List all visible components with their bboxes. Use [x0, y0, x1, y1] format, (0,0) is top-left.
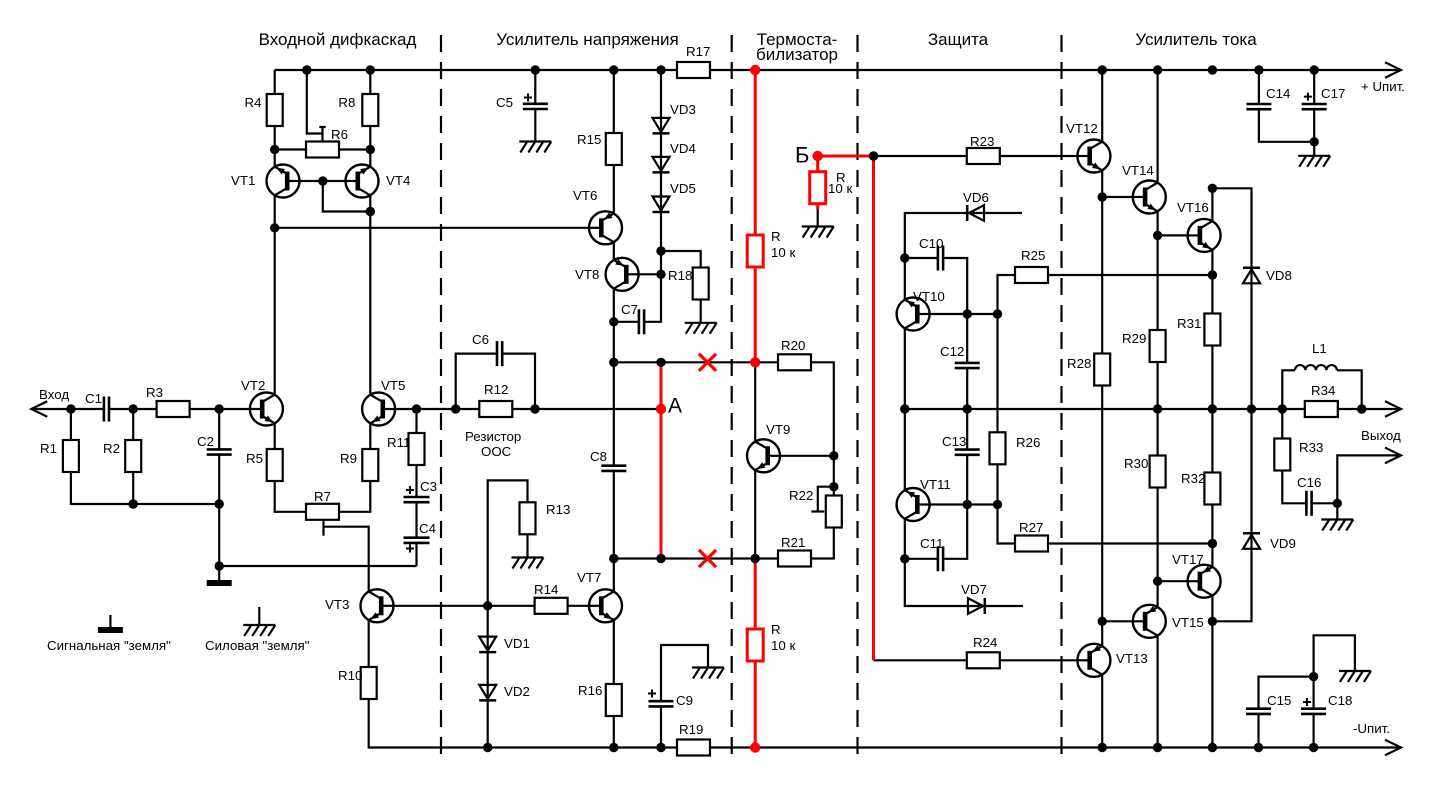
resistor R32	[1204, 473, 1220, 505]
svg-text:VD9: VD9	[1270, 536, 1296, 551]
wire: C18 branch	[1312, 714, 1314, 748]
resistor R3	[157, 401, 190, 417]
svg-text:VT15: VT15	[1172, 615, 1204, 630]
svg-text:VT3: VT3	[325, 597, 349, 612]
svg-text:R9: R9	[340, 451, 357, 466]
resistor R10	[361, 667, 377, 699]
wire: VD6 line and VT10 emitter column	[905, 213, 1022, 300]
resistor R9	[362, 449, 378, 481]
capacitor C8	[601, 464, 626, 467]
wire: C18 node to power ground loop	[1314, 635, 1355, 676]
wire: C6 loop left	[456, 354, 497, 409]
wire: R11 branch to C3 C4 chain	[415, 409, 417, 497]
wire: L1 bypass loop	[1282, 370, 1295, 409]
wire: R24 line to VT13 base	[874, 659, 1078, 661]
svg-text:R: R	[771, 622, 781, 637]
svg-text:R11: R11	[387, 435, 410, 450]
svg-text:VT2: VT2	[241, 378, 265, 393]
wire: VT12 collector to rail	[1101, 70, 1103, 142]
wire: C13 bottom to VT11 base node to C11	[943, 455, 967, 559]
svg-text:VT14: VT14	[1122, 163, 1154, 178]
svg-text:R33: R33	[1299, 440, 1323, 455]
capacitor C12	[955, 362, 980, 365]
svg-text:R19: R19	[679, 722, 703, 737]
wire: VT17 emitter to bottom rail	[1211, 596, 1213, 748]
red wire: node B resistor branch	[816, 156, 819, 209]
wire: R33 branch to C16	[1282, 409, 1306, 503]
wire: R20 right lead down to VT9 base node	[811, 362, 834, 456]
svg-text:R1: R1	[40, 441, 57, 456]
svg-text:R2: R2	[103, 441, 120, 456]
wire: VAS output line to R20	[614, 361, 778, 363]
svg-text:C15: C15	[1267, 693, 1291, 708]
svg-text:билизатор: билизатор	[756, 45, 838, 64]
svg-text:C18: C18	[1328, 693, 1352, 708]
svg-text:C6: C6	[472, 332, 489, 347]
+U supply arrow	[1385, 62, 1401, 78]
wire: input line left of C1	[31, 408, 104, 410]
svg-text:Вход: Вход	[39, 387, 69, 402]
resistor R23	[967, 148, 1000, 164]
red node line: thermal stabilizer column upper (net +U to VAS)	[754, 70, 757, 362]
svg-text:10 к: 10 к	[828, 181, 852, 196]
red junction dots	[750, 65, 760, 75]
wire: VT16 emitter column top	[1211, 188, 1213, 221]
red node line: thermal stabilizer column lower	[754, 559, 757, 748]
resistor R25	[1015, 267, 1048, 283]
wire: VT6 base line from mirror output	[275, 227, 602, 229]
transistor VT6	[589, 211, 622, 244]
svg-text:VT4: VT4	[386, 173, 410, 188]
wire: C14 branch	[1258, 70, 1260, 104]
wire: C15 branch	[1257, 714, 1259, 748]
diode VD5	[653, 197, 670, 211]
svg-text:C2: C2	[197, 434, 214, 449]
transistor VT7	[589, 589, 622, 622]
wire: C8 bottom to VT7 collector	[613, 471, 615, 592]
wire: R25 left lead	[998, 275, 1016, 314]
wire: R22 tap	[818, 487, 834, 512]
wire: C11 left lead	[905, 558, 938, 560]
capacitor C17	[1302, 103, 1327, 106]
svg-text:R28: R28	[1067, 356, 1091, 371]
svg-text:C8: C8	[590, 449, 607, 464]
svg-text:C1: C1	[85, 391, 102, 406]
transistor VT15	[1133, 605, 1166, 638]
wire: R18 branch to power ground	[661, 251, 701, 323]
resistor R19	[677, 740, 710, 756]
resistor R12	[479, 401, 512, 417]
wire: VT14 emitter R29 R30 column	[1156, 211, 1158, 607]
svg-text:R: R	[771, 229, 781, 244]
red cross mark upper	[699, 354, 716, 371]
red node line: node A vertical	[660, 362, 663, 558]
svg-text:C10: C10	[919, 236, 943, 251]
diode VD1	[479, 637, 496, 651]
wire: VT14 base lead	[1102, 196, 1137, 198]
capacitor C5	[523, 103, 548, 106]
svg-text:VD8: VD8	[1266, 268, 1292, 283]
resistor R11	[409, 433, 425, 465]
diode VD9	[1243, 532, 1260, 535]
transistor VT4	[346, 165, 379, 198]
wire: C2 branch top	[218, 409, 220, 449]
svg-text:R10: R10	[338, 668, 362, 683]
transistor VT1	[267, 165, 300, 198]
wire: VT8 base lead to diode chain	[639, 273, 661, 275]
resistor R21	[778, 551, 811, 567]
resistor R13	[520, 502, 536, 534]
svg-text:VT1: VT1	[231, 173, 255, 188]
wire: C5 to power ground	[534, 109, 536, 142]
wire: output line	[905, 408, 1305, 410]
transistor VT17	[1188, 565, 1221, 598]
transistor VT8	[606, 258, 639, 291]
svg-text:VT13: VT13	[1116, 651, 1148, 666]
svg-text:R16: R16	[578, 683, 602, 698]
inductor L1	[1295, 365, 1337, 370]
svg-text:R6: R6	[331, 127, 348, 142]
capacitor C1	[103, 397, 106, 422]
svg-text:VT7: VT7	[577, 570, 601, 585]
power ground under C5	[519, 140, 551, 142]
wire: R13 loop to power ground	[488, 480, 528, 605]
svg-text:C5: C5	[496, 95, 513, 110]
section divider dashed line 3	[856, 35, 858, 763]
svg-text:C17: C17	[1321, 86, 1345, 101]
transistor VT12	[1077, 140, 1110, 173]
wire: VD1 VD2 column to bottom rail	[487, 606, 489, 748]
svg-text:Силовая "земля": Силовая "земля"	[205, 638, 310, 653]
transistor VT13	[1077, 644, 1110, 677]
transistor VT9	[747, 439, 780, 472]
wire: R7 right to R9 to VT5 emitter	[339, 423, 370, 512]
svg-text:R27: R27	[1019, 520, 1043, 535]
svg-text:Выход: Выход	[1361, 428, 1401, 443]
wire: VT3 base R14 VT7 base line	[381, 605, 589, 607]
resistor R31	[1204, 314, 1220, 346]
power ground at C18 loop	[1339, 670, 1371, 672]
wire: lower VAS line to R21	[614, 557, 778, 559]
capacitor C10	[937, 246, 940, 271]
section divider dashed line 1	[440, 35, 442, 763]
diode VD6	[969, 205, 984, 221]
transistor VT11	[897, 488, 930, 521]
output arrow	[1385, 401, 1401, 417]
wire: input line C1 to VT2 base	[109, 408, 251, 410]
capacitor C9	[649, 700, 674, 703]
power ground under C16	[1321, 518, 1353, 520]
svg-text:R26: R26	[1016, 435, 1040, 450]
capacitor C2	[207, 448, 232, 451]
resistor R20	[778, 354, 811, 370]
svg-text:R3: R3	[146, 385, 163, 400]
capacitor C3	[404, 496, 430, 499]
red cross mark lower	[699, 550, 716, 567]
resistor R18	[693, 268, 709, 300]
svg-text:-Uпит.: -Uпит.	[1353, 721, 1390, 736]
resistor R5	[267, 449, 283, 481]
svg-text:VT11: VT11	[920, 477, 951, 492]
wire: R21 right lead up to R22 bottom	[811, 528, 834, 559]
wire: VT16 base lead	[1158, 234, 1193, 236]
power ground legend symbol	[243, 624, 275, 626]
resistor R4	[267, 94, 283, 126]
svg-text:VT5: VT5	[381, 378, 405, 393]
svg-text:C13: C13	[942, 434, 966, 449]
wire: VT10 base to R25	[921, 313, 997, 315]
wire: VT5 base to R12 to node A line	[382, 408, 480, 410]
wire: VT14 collector to rail	[1156, 70, 1158, 183]
wire: VT9 base lead	[768, 455, 834, 457]
resistor R24	[967, 652, 1000, 668]
resistor R29	[1150, 330, 1166, 362]
wire: VT7 emitter to R16 to bottom rail	[613, 620, 615, 747]
diode VD8	[1243, 267, 1260, 270]
transistor VT5	[362, 393, 395, 426]
wire: C5 branch from rail	[534, 70, 536, 104]
resistor R30	[1150, 456, 1166, 488]
section divider dashed line 4	[1060, 35, 1062, 763]
svg-text:Входной дифкаскад: Входной дифкаскад	[259, 30, 417, 49]
svg-text:R15: R15	[577, 132, 601, 147]
power ground under R13	[512, 556, 544, 558]
wire: VT8 emitter down through C7 node to C8	[613, 289, 615, 466]
svg-text:R8: R8	[338, 95, 355, 110]
svg-text:R23: R23	[970, 134, 994, 149]
wire: C10 left lead	[905, 257, 938, 259]
resistor R28	[1094, 354, 1110, 386]
power ground under C17	[1298, 155, 1330, 157]
wire: VT1 base to VT4 base link	[287, 180, 358, 182]
wire: C7 left lead	[614, 321, 639, 323]
svg-text:R17: R17	[686, 44, 710, 59]
svg-text:R20: R20	[781, 338, 805, 353]
svg-text:R7: R7	[314, 489, 331, 504]
wire: R2 branch	[132, 409, 134, 504]
svg-text:C11: C11	[920, 536, 943, 551]
svg-text:C7: C7	[621, 302, 638, 317]
output arrow 2	[1385, 448, 1401, 464]
svg-text:Б: Б	[795, 143, 809, 168]
capacitor C16	[1305, 491, 1308, 516]
wire: C6 loop right	[502, 354, 535, 409]
svg-text:VD6: VD6	[963, 190, 989, 205]
wire: VD8 VD9 column	[1212, 188, 1251, 621]
svg-text:R32: R32	[1181, 471, 1205, 486]
resistor R27	[1015, 536, 1048, 552]
resistor R17	[677, 62, 710, 78]
resistor R1	[63, 440, 79, 472]
svg-text:R21: R21	[781, 535, 805, 550]
wire: VT6 emitter to VT8 collector	[613, 242, 615, 260]
wire: VT3 collector to R7 wiper	[324, 527, 369, 592]
wire: VT3 emitter R10 and bottom rail	[369, 620, 1398, 747]
wire: VT5 collector to VT4 collector column	[369, 195, 371, 395]
wire: legend signal ground stem	[109, 615, 111, 627]
capacitor C18	[1301, 707, 1326, 710]
resistor R8	[362, 94, 378, 126]
wire: C16 right to ground node	[1312, 502, 1338, 504]
wire: bottom link R2 to C2	[133, 503, 219, 505]
wire: VT12 emitter R28 column to VT13	[1101, 170, 1103, 646]
svg-text:R18: R18	[668, 268, 692, 283]
svg-text:R31: R31	[1177, 316, 1201, 331]
svg-text:Усилитель тока: Усилитель тока	[1135, 30, 1257, 49]
wire: R4 branch / VT1 emitter column	[274, 70, 276, 167]
resistor R34	[1305, 401, 1338, 417]
wire: C9 top loop to power ground	[661, 645, 708, 701]
svg-text:VT8: VT8	[575, 267, 599, 282]
svg-text:VT6: VT6	[573, 188, 597, 203]
svg-text:R13: R13	[546, 502, 570, 517]
capacitor C15	[1246, 707, 1271, 710]
wire: R6 left lead	[275, 148, 306, 150]
svg-text:R34: R34	[1311, 383, 1335, 398]
svg-text:C12: C12	[940, 344, 964, 359]
transistor VT16	[1188, 219, 1221, 252]
junction dots	[302, 65, 311, 74]
wire: mirror base to VT4 collector jog	[323, 181, 371, 212]
svg-text:VD7: VD7	[961, 582, 987, 597]
transistor VT14	[1133, 181, 1166, 214]
svg-text:R25: R25	[1021, 248, 1045, 263]
resistor R15	[606, 133, 622, 165]
wire: VT9 emitter	[754, 470, 756, 558]
svg-text:VT17: VT17	[1172, 552, 1204, 567]
wire: VT15 emitter to bottom rail	[1156, 636, 1158, 748]
svg-text:10 к: 10 к	[771, 638, 795, 653]
wire: R27 leads	[998, 505, 1016, 544]
svg-text:VT16: VT16	[1177, 200, 1209, 215]
wire: VT11 collector to VD7 line	[905, 519, 1023, 606]
power ground under R18	[685, 322, 717, 324]
svg-text:L1: L1	[1312, 341, 1327, 356]
svg-text:VT10: VT10	[913, 289, 945, 304]
svg-text:VD4: VD4	[670, 141, 696, 156]
svg-text:C9: C9	[676, 693, 693, 708]
wire: VT4 emitter to R8 branch	[369, 70, 371, 167]
wire: VT17 base lead	[1158, 580, 1193, 582]
wire: +U supply rail	[275, 69, 1398, 71]
capacitor C4	[404, 536, 430, 539]
svg-text:C14: C14	[1266, 86, 1290, 101]
capacitor C13	[955, 448, 980, 451]
diode VD7	[968, 598, 983, 614]
svg-text:ООС: ООС	[481, 444, 512, 459]
wire: R25 right lead to VT16 column	[1048, 274, 1212, 276]
power ground at C9 loop	[692, 666, 724, 668]
wire: C2 bottom to signal ground	[218, 455, 220, 580]
svg-text:C4: C4	[419, 521, 436, 536]
diode VD4	[653, 157, 670, 171]
wire: VT9 collector	[754, 362, 756, 441]
resistor R6 (trimmer)	[306, 142, 339, 158]
wire: C12 to C13 column	[966, 368, 968, 450]
svg-text:R24: R24	[973, 635, 997, 650]
wire: C16 node to power ground	[1336, 503, 1338, 519]
svg-text:Усилитель напряжения: Усилитель напряжения	[496, 30, 679, 49]
transistor VT3	[361, 589, 394, 622]
wire: second output arrow line	[1337, 455, 1398, 503]
resistor R22 (trimmer)	[826, 496, 842, 528]
-U supply arrow	[1385, 740, 1401, 756]
wire: R1 branch and bottom link	[71, 409, 133, 504]
resistor R26	[990, 432, 1006, 464]
svg-text:R4: R4	[245, 95, 262, 110]
svg-text:R12: R12	[484, 382, 508, 397]
svg-text:R5: R5	[246, 451, 263, 466]
power ground under node B resistor	[802, 225, 834, 227]
wire: VT13 emitter to bottom rail	[1101, 675, 1103, 748]
diode VD3	[653, 118, 670, 132]
svg-text:Резистор: Резистор	[465, 429, 521, 444]
capacitor C7	[638, 309, 641, 334]
resistor R16	[606, 684, 622, 716]
wire: VT11 base to R26 R27 node	[921, 503, 997, 505]
svg-text:R30: R30	[1124, 456, 1148, 471]
wire: VT15 base lead	[1102, 620, 1137, 622]
svg-text:R29: R29	[1122, 331, 1146, 346]
diode VD2	[479, 685, 496, 699]
svg-text:+ Uпит.: + Uпит.	[1361, 79, 1405, 94]
wire: legend power ground stem	[258, 607, 260, 625]
red wire: node B column to R24 line	[872, 156, 875, 660]
input arrow	[31, 401, 47, 417]
svg-text:R14: R14	[534, 582, 558, 597]
wire: R6 right lead	[339, 148, 370, 150]
svg-text:Защита: Защита	[928, 30, 989, 49]
resistor R7 (trimmer)	[306, 504, 339, 520]
wire: VT9 base node down to R22	[833, 456, 835, 496]
capacitor C14	[1246, 103, 1271, 106]
wire: VT10 collector to output line and VT11 emitter	[904, 328, 906, 490]
svg-text:R22: R22	[789, 488, 813, 503]
svg-text:VT12: VT12	[1066, 121, 1098, 136]
transistor VT10	[897, 298, 930, 331]
svg-text:А: А	[668, 395, 682, 418]
wire: VT16 to R31 R32 to VT17 column	[1211, 250, 1213, 567]
red wire: node B horizontal	[818, 155, 874, 158]
resistor R33	[1274, 439, 1290, 471]
wire: C9 bottom lead	[660, 706, 662, 747]
section divider dashed line 2	[731, 35, 733, 763]
svg-text:VD2: VD2	[504, 684, 530, 699]
resistor R 10k thermal upper (red)	[747, 235, 763, 267]
svg-text:VT9: VT9	[766, 422, 790, 437]
wire: R26 column	[996, 314, 998, 505]
wire: diode chain column VD3 VD4 VD5	[644, 70, 661, 322]
resistor R14	[535, 598, 568, 614]
wire: VT2 emitter to R5 to R7 left	[275, 423, 306, 512]
wire: R23 line node B to VT12 base	[874, 155, 1078, 157]
transistor VT2	[250, 393, 283, 426]
svg-text:VD5: VD5	[670, 181, 696, 196]
wire: R6 wiper tap to rail	[307, 70, 323, 134]
wire: C10 right lead down to C12	[943, 258, 967, 363]
wire: VT1 collector to VT2 collector column	[274, 195, 276, 395]
wire: signal ground link line	[219, 565, 416, 567]
signal ground legend symbol	[98, 627, 123, 633]
wire: R15 column rail to VT6 collector	[613, 70, 615, 214]
svg-text:10 к: 10 к	[771, 245, 795, 260]
svg-text:C16: C16	[1297, 475, 1321, 490]
wire: C17 branch to power ground	[1313, 70, 1315, 104]
resistor R2	[125, 440, 141, 472]
wire: node B resistor to ground	[817, 209, 819, 227]
signal ground under C2	[207, 580, 232, 586]
svg-text:VD3: VD3	[670, 102, 696, 117]
